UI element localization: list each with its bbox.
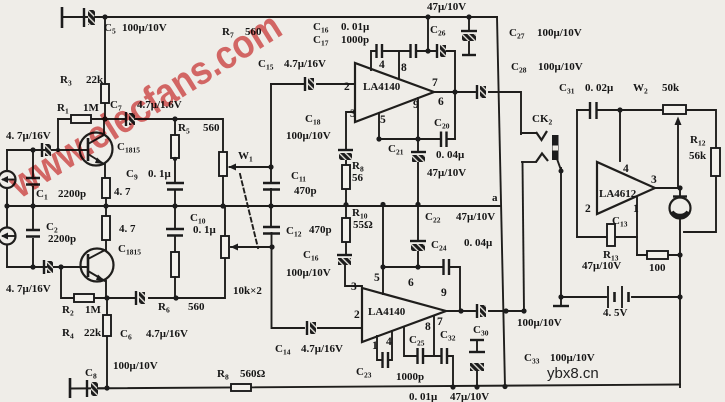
wire U2 pin1 pin4 [377, 331, 392, 360]
wire middle ground rail [7, 205, 501, 207]
svg-text:ybx8.cn: ybx8.cn [547, 365, 599, 382]
wire U1 top capacitor row [371, 17, 455, 139]
potentiometer W1 upper [219, 152, 271, 206]
resistor R3 [101, 84, 109, 103]
svg-text:a: a [492, 192, 498, 204]
wire C31 left leg [576, 110, 578, 237]
svg-text:0. 04μ: 0. 04μ [436, 149, 465, 161]
svg-text:3: 3 [350, 108, 356, 120]
svg-text:4. 7: 4. 7 [114, 186, 131, 198]
svg-text:6: 6 [438, 96, 444, 108]
capacitor C12 [263, 227, 280, 234]
source input 2 [0, 228, 16, 245]
terminal input top-left [61, 7, 64, 28]
resistor R10 55 [342, 204, 350, 255]
resistor R8 56 [342, 165, 350, 189]
svg-text:4: 4 [623, 163, 629, 175]
wire pin4 leg [619, 110, 621, 161]
svg-text:2: 2 [344, 81, 350, 93]
capacitor C29 [477, 85, 486, 99]
dashed gang link W1 [240, 174, 258, 248]
svg-text:100μ/10V: 100μ/10V [286, 267, 331, 279]
svg-text:100μ/10V: 100μ/10V [286, 130, 331, 142]
capacitor C23 1000p [383, 352, 389, 368]
op-amp U3 LA4612 [597, 162, 655, 214]
node bus W1 wiper vertical [271, 84, 362, 328]
capacitor C32 [442, 348, 448, 364]
op-amp U2 LA4140 lower [362, 288, 446, 342]
capacitor C6 [107, 258, 225, 305]
capacitor C33 to ground bar [553, 297, 569, 306]
svg-text:LA4612: LA4612 [599, 188, 637, 200]
capacitor C19 [437, 44, 446, 58]
wire U3 pin2 row [577, 236, 637, 238]
capacitor C10 0.1u [166, 206, 184, 252]
transistor Q2 [81, 249, 114, 299]
capacitor C24 47u [410, 204, 426, 267]
wire right vertical bus [497, 17, 505, 387]
svg-text:4: 4 [379, 59, 385, 71]
source input 1 [0, 171, 16, 188]
resistor R13 [607, 224, 615, 246]
capacitor C3 [42, 143, 51, 157]
svg-text:9: 9 [413, 99, 419, 111]
capacitor C20 0.04u [441, 132, 447, 148]
wire U2 pin5 pin6 row [383, 204, 460, 311]
svg-text:47μ/10V: 47μ/10V [450, 391, 489, 402]
battery 4.5V [561, 287, 680, 307]
svg-text:100: 100 [649, 262, 666, 274]
svg-text:47μ/10V: 47μ/10V [427, 167, 466, 179]
svg-text:56: 56 [352, 172, 364, 184]
svg-text:100μ/10V: 100μ/10V [113, 360, 158, 372]
svg-text:C90. 1μ: C90. 1μ [126, 168, 172, 182]
capacitor C34 [469, 340, 485, 387]
wire op-amp U3 input top [577, 110, 716, 232]
svg-text:5: 5 [374, 272, 380, 284]
svg-text:R8560Ω: R8560Ω [217, 368, 266, 382]
wire R1 to base node [57, 119, 59, 150]
wire base T1 [7, 149, 87, 151]
wire right output rail [679, 188, 681, 387]
svg-text:5: 5 [380, 114, 386, 126]
capacitor C15 [271, 77, 355, 91]
capacitor C21 47u [411, 139, 426, 204]
svg-text:47μ/10V: 47μ/10V [427, 1, 466, 13]
svg-text:4. 5V: 4. 5V [603, 307, 628, 319]
potentiometer W1 lower [221, 206, 272, 258]
svg-text:470p: 470p [294, 185, 317, 197]
capacitor C8 bottom [87, 380, 107, 397]
wire jack to battery node [560, 168, 562, 297]
svg-text:8: 8 [401, 62, 407, 74]
capacitor C16 0.01u [377, 44, 383, 58]
wire bottom rail [70, 385, 680, 389]
svg-text:0. 04μ: 0. 04μ [464, 237, 493, 249]
motor M [670, 197, 691, 219]
resistor R1 [58, 115, 124, 123]
wire jack to lower output [523, 162, 525, 311]
resistor R2 [61, 267, 107, 302]
capacitor C14 [307, 321, 316, 335]
svg-text:47μ/10V: 47μ/10V [582, 260, 621, 272]
svg-text:3: 3 [351, 281, 357, 293]
svg-text:1: 1 [372, 340, 378, 352]
svg-text:3: 3 [651, 174, 657, 186]
terminal input bottom-left [69, 378, 72, 398]
svg-text:56k: 56k [689, 150, 707, 162]
capacitor C2 [26, 206, 40, 267]
capacitor C25 [418, 348, 424, 364]
resistor R4 [103, 298, 111, 388]
svg-text:10k×2: 10k×2 [233, 285, 262, 297]
resistor R8 560ohm [231, 384, 251, 391]
capacitor C30 [477, 304, 486, 318]
capacitor C26b 0.04u [444, 259, 450, 275]
wire U2 output [446, 310, 524, 312]
svg-text:2200p: 2200p [48, 233, 76, 245]
potentiometer W2 [663, 105, 686, 188]
svg-text:8: 8 [425, 321, 431, 333]
svg-text:470p: 470p [309, 224, 332, 236]
svg-text:2: 2 [354, 309, 360, 321]
svg-text:1000p: 1000p [396, 371, 424, 383]
capacitor C1 [26, 150, 40, 206]
svg-text:4. 7μ/16V: 4. 7μ/16V [6, 130, 51, 142]
wire U3 output [655, 187, 680, 189]
svg-text:LA4140: LA4140 [368, 306, 406, 318]
capacitor C17 1000p [411, 44, 417, 58]
svg-text:1: 1 [633, 203, 639, 215]
wire left input column [6, 150, 8, 267]
wire U3 pin1 leg [636, 197, 638, 255]
capacitor C26 [461, 17, 477, 55]
svg-text:4. 7: 4. 7 [119, 223, 136, 235]
transistor Q1 [80, 119, 113, 178]
wire U1 pin5 pin9 feedback [379, 98, 455, 139]
svg-text:100μ/10V: 100μ/10V [517, 317, 562, 329]
wire U2 pin7 pin8 row [404, 316, 453, 387]
capacitor C31 0.02u [590, 102, 597, 119]
svg-text:4: 4 [386, 336, 392, 348]
capacitor C11 [263, 183, 280, 190]
resistor R5 [171, 119, 179, 182]
svg-text:0. 1μ: 0. 1μ [193, 224, 217, 236]
capacitor C18 [338, 150, 353, 160]
capacitor C5 [84, 8, 105, 27]
capacitor C9 0.1u [166, 183, 184, 206]
svg-text:7: 7 [432, 77, 438, 89]
svg-text:LA4140: LA4140 [363, 81, 401, 93]
resistor R6 [171, 252, 179, 298]
node collector T1 supply [104, 17, 106, 119]
wire base T2 [7, 266, 87, 268]
wire U1 output [434, 92, 521, 134]
svg-text:2: 2 [585, 203, 591, 215]
wire U1 pin3 network [346, 112, 355, 206]
resistor collector Q2 4.7 [102, 206, 110, 250]
resistor emitter Q1 4.7 [102, 178, 110, 206]
wire top supply rail [62, 16, 497, 18]
svg-text:7: 7 [437, 316, 443, 328]
resistor R12 56k [711, 148, 720, 176]
capacitor C7 [126, 112, 223, 152]
capacitor C16b [337, 255, 362, 286]
svg-text:6: 6 [408, 277, 414, 289]
svg-text:9: 9 [441, 287, 447, 299]
capacitor C4 [44, 260, 53, 274]
resistor R100 [637, 251, 680, 259]
svg-text:4. 7μ/16V: 4. 7μ/16V [6, 283, 51, 295]
svg-text:0. 01μ: 0. 01μ [409, 391, 438, 402]
svg-text:55Ω: 55Ω [353, 219, 373, 231]
jack CK2 [521, 131, 561, 170]
op-amp U1 LA4140 [355, 63, 434, 122]
